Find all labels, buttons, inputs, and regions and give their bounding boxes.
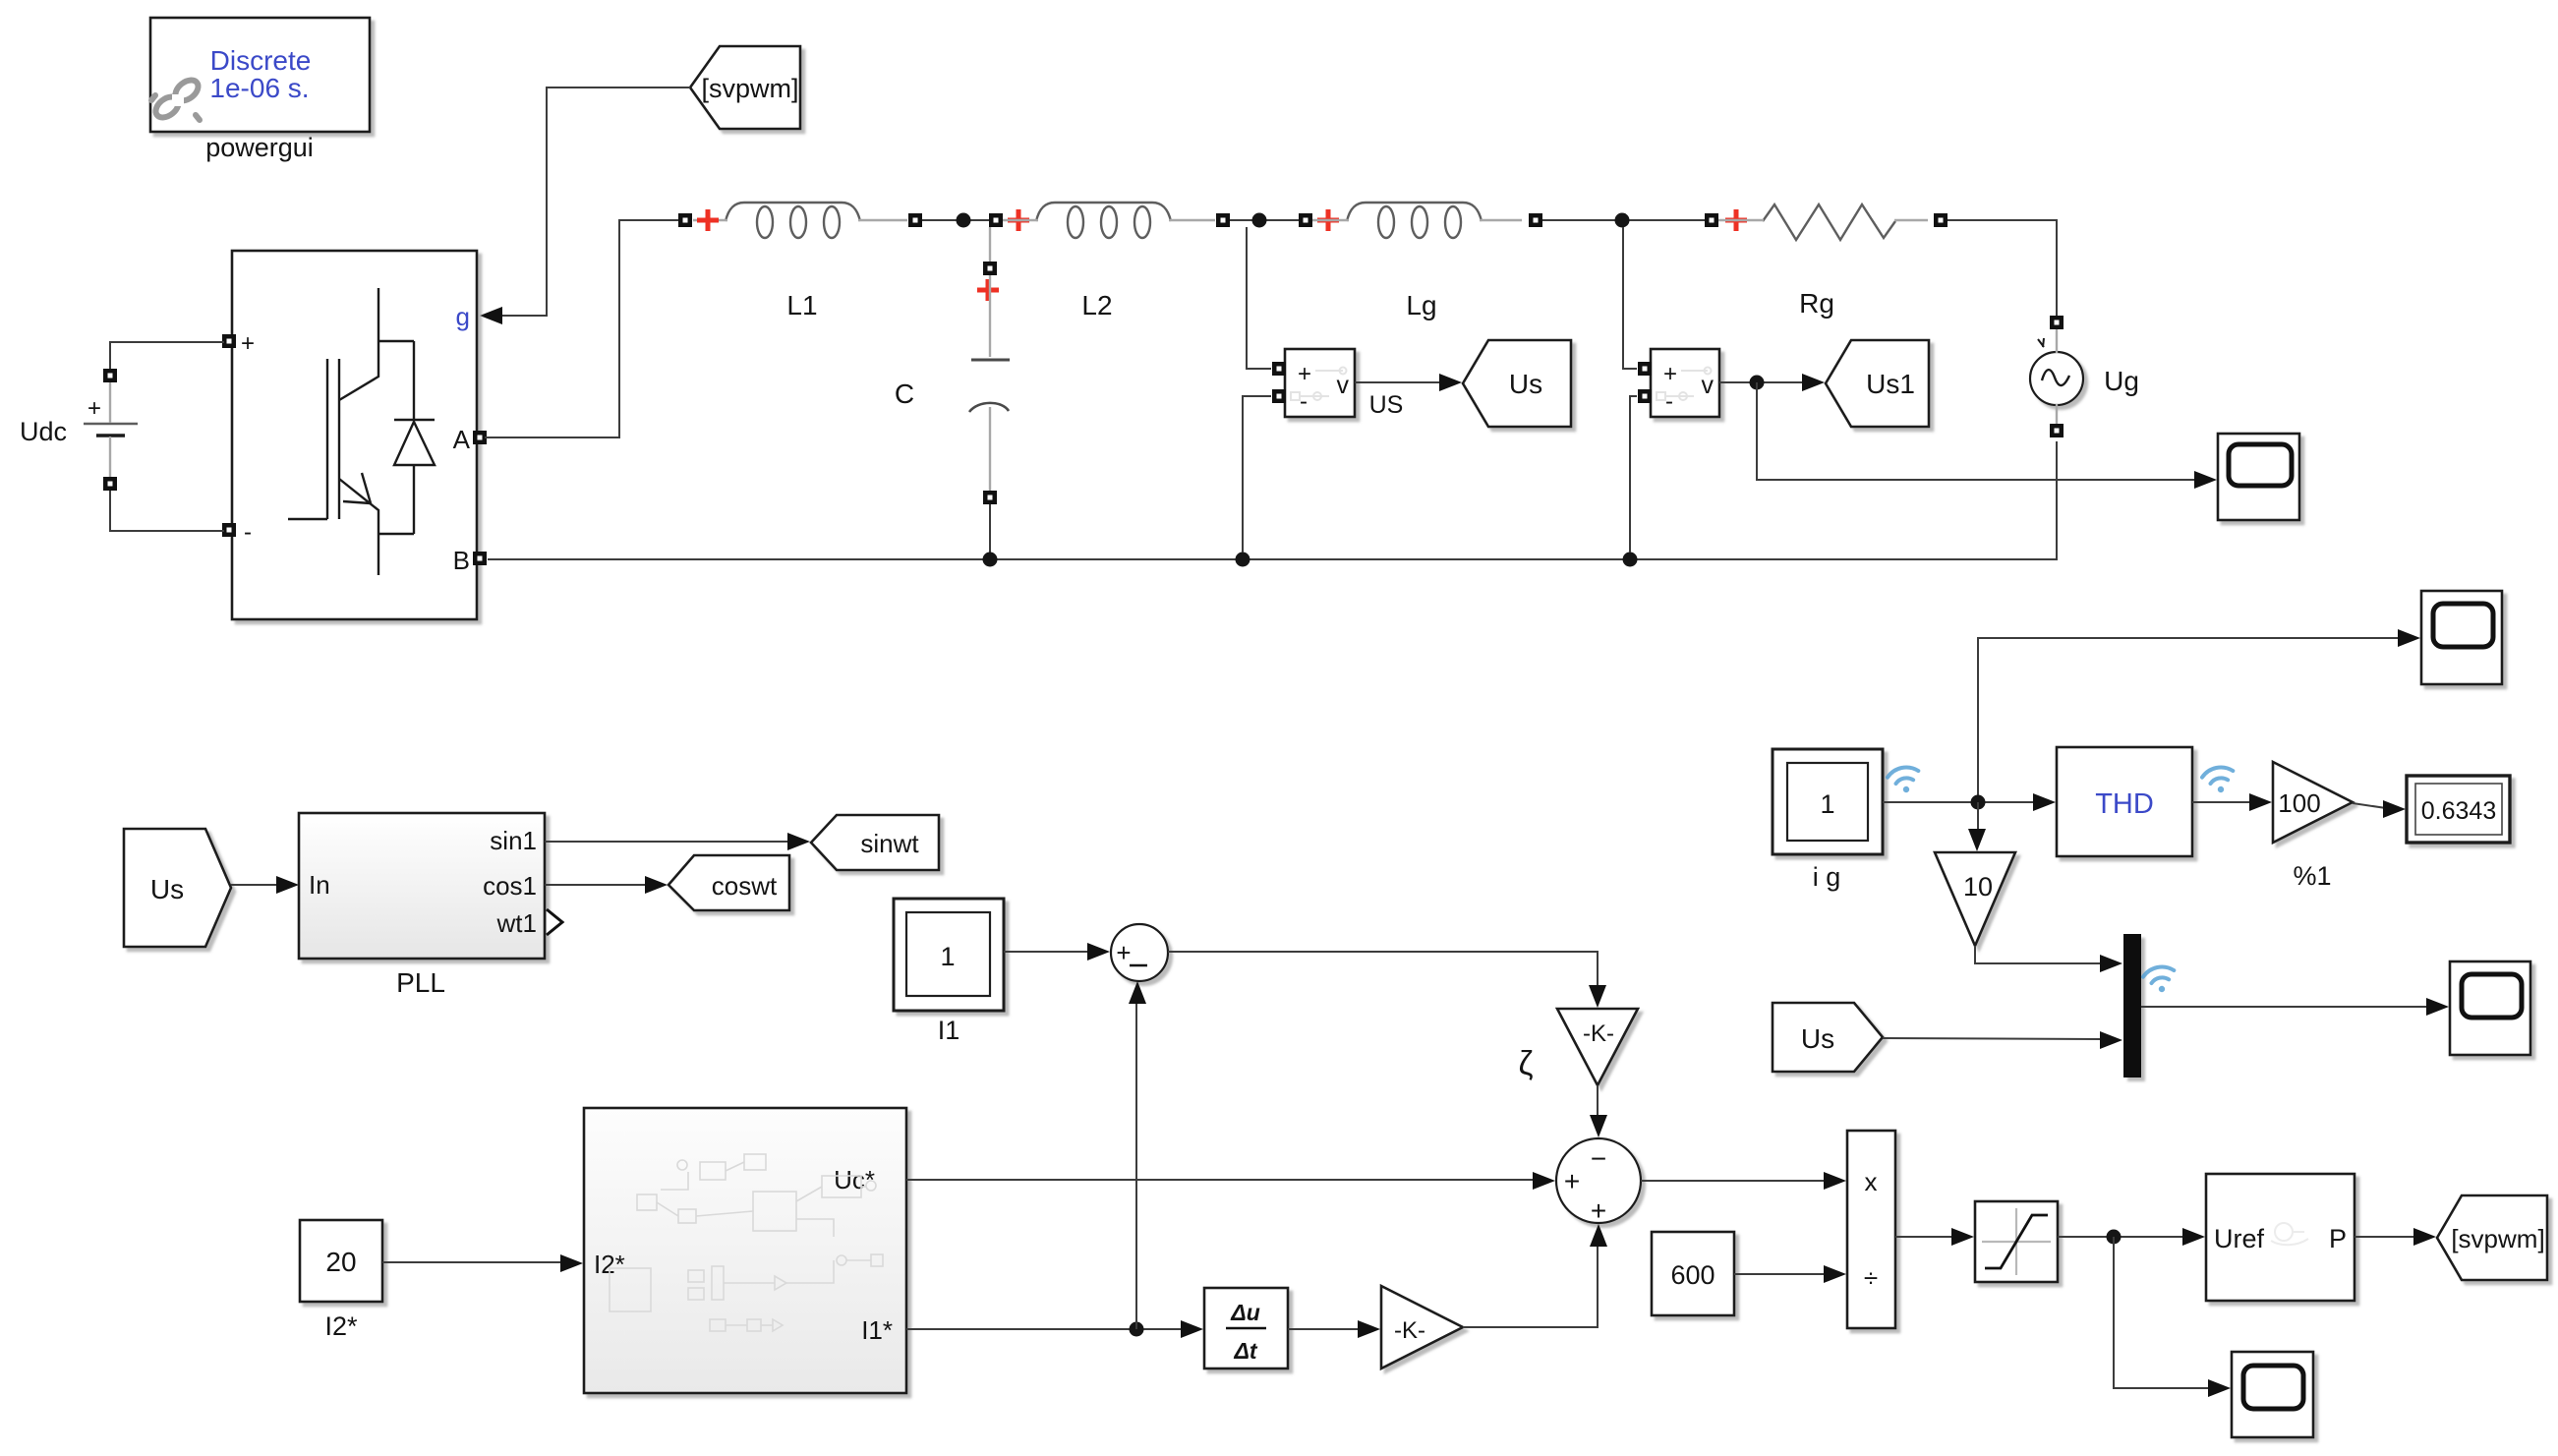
svg-text:g: g [456, 302, 470, 331]
node after L2 [1252, 213, 1267, 228]
wifi badge on i g [1887, 765, 1923, 796]
Rg right port [1934, 213, 1948, 227]
arrow into coswt [645, 876, 668, 894]
svg-text:1: 1 [940, 942, 955, 971]
wire i-g branch up to scope2 [1978, 638, 2399, 802]
svg-text:[svpwm]: [svpwm] [2451, 1224, 2544, 1253]
arrow into Uref [2182, 1228, 2205, 1246]
arrow into mux input 1 [2100, 955, 2122, 972]
wire sum1 out to gain z [1168, 952, 1598, 986]
wire subsystem I1* out [906, 1328, 1182, 1330]
wire gain to display [2353, 803, 2386, 808]
gain -K- (right) [1381, 1286, 1463, 1369]
svg-text:I1*: I1* [861, 1315, 893, 1345]
arrow into Us goto [1439, 374, 1462, 391]
arrow into sum2 left [1533, 1172, 1555, 1190]
svg-text:Udc: Udc [20, 417, 67, 446]
svg-text:Lg: Lg [1406, 290, 1436, 320]
svg-text:v: v [1337, 372, 1350, 399]
capacitor C polarity mark [977, 279, 999, 301]
wire mux to scope3 [2141, 1006, 2427, 1008]
wire THD to gain %1 [2192, 801, 2250, 803]
svg-text:coswt: coswt [712, 871, 778, 901]
From tag [svpwm] (top, flipped) [690, 46, 800, 129]
From tag Us (to PLL) [124, 829, 231, 947]
wire node to Us1 meter + [1623, 227, 1637, 369]
svg-text:L1: L1 [786, 290, 817, 320]
wire US v to Us goto [1355, 381, 1439, 383]
wire subsystem Uc* to sum2 [906, 1179, 1534, 1181]
PLL block [299, 813, 545, 998]
Rg left port [1705, 213, 1718, 227]
svg-text:+: + [1663, 361, 1677, 387]
wire product to saturation [1895, 1236, 1952, 1238]
svg-text:0.6343: 0.6343 [2421, 797, 2496, 825]
gain 10 (down) [1935, 852, 2015, 946]
arrow into gain z [1589, 985, 1606, 1008]
arrow into product x [1824, 1172, 1846, 1190]
svg-text:100: 100 [2278, 788, 2320, 818]
svg-text:PLL: PLL [396, 967, 445, 998]
wire derivative to gain -K- [1288, 1328, 1359, 1330]
bridge A port [473, 431, 487, 444]
arrow into scope4 [2208, 1379, 2231, 1397]
Lg left port [1299, 213, 1312, 227]
US - port [1272, 389, 1286, 403]
arrow into sum1 [1087, 943, 1110, 961]
svg-text:I1: I1 [938, 1016, 960, 1045]
gain z (-K- down) [1519, 1009, 1639, 1085]
arrow into scope1 [2194, 471, 2217, 489]
svg-text:Ug: Ug [2104, 366, 2139, 396]
Goto tag sinwt [811, 815, 939, 870]
svg-text:+: + [87, 395, 101, 422]
svg-text:L2: L2 [1081, 290, 1112, 320]
constant block I1 [894, 899, 1004, 1045]
wire C to B rail [989, 504, 991, 559]
wire from [svpwm] tag to bridge gate g [500, 87, 690, 316]
node meas Us1- on B rail [1623, 553, 1638, 567]
Ug top port [2050, 316, 2064, 329]
wire 20 to subsystem [382, 1261, 561, 1263]
inductor Lg [1312, 203, 1522, 320]
Goto tag [svpwm] [2437, 1195, 2547, 1280]
L2 right port [1216, 213, 1230, 227]
wire US - to B rail [1243, 396, 1271, 553]
voltage measurement US [1285, 349, 1403, 419]
scope4 [2232, 1352, 2313, 1437]
Uref P block [2206, 1174, 2355, 1301]
Lg right port [1529, 213, 1542, 227]
Lg polarity mark [1317, 209, 1339, 231]
svg-text:v: v [1702, 372, 1715, 399]
svg-text:powergui: powergui [205, 133, 314, 162]
svg-text:Rg: Rg [1799, 288, 1834, 319]
bridge + port [222, 334, 236, 348]
L1 polarity mark [697, 209, 719, 231]
svg-text:1e-06 s.: 1e-06 s. [209, 73, 309, 103]
sum1 circle [1111, 924, 1168, 981]
derivative block [1204, 1288, 1288, 1369]
display block i g [1773, 749, 1883, 892]
wire gain 10 to mux [1975, 946, 2101, 963]
scope2 [2421, 591, 2502, 684]
IGBT bridge block U1 [232, 251, 477, 619]
wire Us1 node to scope1 [1757, 382, 2195, 480]
bridge B port [473, 552, 487, 565]
svg-text:÷: ÷ [1864, 1263, 1878, 1293]
arrow into PLL In [276, 876, 299, 894]
inductor L2 [1003, 203, 1215, 320]
svg-text:P: P [2329, 1224, 2347, 1253]
wire bridge A up to L1 [485, 220, 680, 437]
wire i g to THD [1883, 801, 2034, 803]
node on Us1 wire [1750, 376, 1765, 390]
svg-text:-: - [1665, 388, 1673, 415]
arrow into svpwm goto [2413, 1228, 2436, 1246]
controller subsystem block [584, 1108, 906, 1393]
wire cos1 to coswt [545, 884, 646, 886]
svg-text:Us: Us [150, 874, 184, 904]
node after L1 [957, 213, 971, 228]
svg-text:Δt: Δt [1233, 1338, 1257, 1364]
arrow into gain %1 [2249, 793, 2272, 811]
node on i g wire [1971, 795, 1986, 810]
arrow into display [2383, 800, 2406, 818]
scope3 [2450, 961, 2530, 1055]
arrow into mux input 2 [2100, 1031, 2122, 1049]
svg-text:-: - [1300, 388, 1308, 415]
arrow into derivative [1181, 1320, 1203, 1338]
svg-text:Uref: Uref [2214, 1224, 2265, 1253]
arrow into subsystem I2* [560, 1254, 583, 1272]
From tag Us (to mux) [1773, 1003, 1883, 1072]
B rail wire [488, 441, 2057, 559]
wire node up to sum1 bottom [1135, 1002, 1137, 1329]
L1 left port [678, 213, 692, 227]
product block [1847, 1131, 1895, 1328]
svg-text:Discrete: Discrete [210, 45, 312, 76]
battery bottom port [103, 477, 117, 491]
arrow into sum2 top [1590, 1115, 1607, 1137]
arrow into sum2 bottom [1590, 1224, 1607, 1247]
node after Lg [1615, 213, 1630, 228]
saturation block [1975, 1201, 2058, 1282]
DC source Udc battery [20, 382, 138, 477]
powergui block [150, 18, 370, 162]
wire Us1 meter v output [1719, 381, 1803, 383]
svg-text:−: − [1591, 1143, 1606, 1174]
Rg polarity mark [1725, 209, 1747, 231]
svg-text:Us: Us [1801, 1023, 1834, 1054]
arrow into Us1 goto [1802, 374, 1825, 391]
arrow into saturation [1951, 1228, 1974, 1246]
svg-text:10: 10 [1963, 872, 1993, 902]
svg-text:cos1: cos1 [483, 871, 537, 901]
gain %1 (100) [2273, 762, 2353, 891]
Goto tag Us1 [1826, 340, 1929, 427]
arrow into g port [480, 307, 502, 324]
wifi badge on mux output [2142, 964, 2179, 996]
arrow into gain -K- [1358, 1320, 1380, 1338]
wire gain z to sum2 [1597, 1085, 1599, 1116]
capacitor C top port [983, 262, 997, 275]
svg-text:-K-: -K- [1583, 1020, 1614, 1047]
arrow into sum1 bottom [1129, 981, 1146, 1004]
svg-text:-: - [244, 519, 252, 546]
svg-text:In: In [309, 870, 330, 900]
node on I1* wire [1130, 1322, 1144, 1337]
battery top port [103, 369, 117, 382]
Ug bottom port [2050, 424, 2064, 437]
arrow into THD [2033, 793, 2056, 811]
svg-text:x: x [1865, 1167, 1878, 1196]
svg-text:20: 20 [325, 1247, 356, 1277]
arrow into gain 10 [1968, 829, 1986, 851]
sum2 circle [1556, 1138, 1641, 1226]
node meas US- on B rail [1236, 553, 1250, 567]
capacitor C bottom port [983, 491, 997, 504]
svg-text:B: B [453, 546, 470, 575]
mux [2123, 934, 2141, 1077]
wire battery+ to bridge+ [110, 342, 224, 369]
svg-text:ζ: ζ [1519, 1045, 1534, 1082]
wire Us tag to PLL [231, 884, 277, 886]
wire node to US + [1247, 227, 1271, 369]
inductor L1 [693, 203, 907, 320]
wire L2 to Lg with node [1230, 219, 1299, 221]
svg-text:Δu: Δu [1230, 1300, 1260, 1325]
wire battery- to bridge- [110, 491, 224, 531]
wire saturation to Uref [2058, 1236, 2183, 1238]
svg-text:I2*: I2* [324, 1311, 358, 1341]
svg-text:Us: Us [1509, 369, 1542, 399]
svg-text:A: A [453, 425, 471, 454]
constant block 20 [300, 1220, 382, 1341]
wifi badge on THD output [2201, 765, 2238, 796]
arrow into scope2 [2398, 629, 2420, 647]
Us1 meter - port [1638, 389, 1652, 403]
arrow into product divide [1824, 1265, 1846, 1283]
svg-text:+: + [1116, 938, 1131, 967]
svg-text:i g: i g [1813, 862, 1841, 892]
svg-text:wt1: wt1 [496, 908, 537, 938]
svg-text:+: + [1298, 361, 1311, 387]
L2 polarity mark [1008, 209, 1029, 231]
arrow into sinwt [787, 833, 810, 850]
resistor Rg [1718, 204, 1928, 319]
AC grid source Ug [2030, 328, 2139, 425]
svg-text:1: 1 [1820, 789, 1834, 819]
svg-text:+: + [1591, 1195, 1606, 1226]
Goto tag coswt [669, 855, 789, 910]
wire L1 to L2 with node [922, 219, 989, 221]
Goto tag Us [1463, 340, 1571, 427]
capacitor C branch wire [989, 227, 991, 262]
wire node down to scope4 [2114, 1237, 2209, 1388]
wire Uref to svpwm goto [2355, 1236, 2414, 1238]
THD block [2057, 747, 2192, 856]
wire gain -K- to sum2 bottom [1463, 1246, 1598, 1327]
numeric display 0.6343 [2407, 776, 2510, 843]
capacitor C [895, 275, 1010, 491]
wire sum2 to product [1641, 1180, 1825, 1182]
Us1 meter + port [1638, 362, 1652, 376]
wire sin1 to sinwt [545, 841, 788, 843]
wire 600 to product [1734, 1273, 1825, 1275]
node after saturation [2107, 1230, 2122, 1245]
svg-text:sinwt: sinwt [860, 829, 919, 858]
wire Us tag to mux [1883, 1038, 2101, 1039]
US + port [1272, 362, 1286, 376]
L2 left port [989, 213, 1003, 227]
arrow into scope3 [2426, 998, 2449, 1016]
svg-text:THD: THD [2095, 788, 2154, 820]
svg-text:%1: %1 [2293, 861, 2331, 891]
constant block 600 [1652, 1232, 1734, 1315]
voltage measurement Us1 meter [1651, 349, 1719, 417]
L1 right port [908, 213, 922, 227]
svg-text:sin1: sin1 [490, 826, 537, 855]
node C on B rail [983, 553, 998, 567]
svg-text:+: + [241, 330, 255, 357]
wire Us1 meter - to B rail [1630, 396, 1637, 553]
bridge - port [222, 523, 236, 537]
svg-text:-K-: -K- [1394, 1317, 1425, 1344]
svg-text:Us1: Us1 [1866, 369, 1915, 399]
svg-text:[svpwm]: [svpwm] [701, 74, 798, 103]
wire Rg to Ug [1948, 220, 2057, 316]
svg-text:+: + [1564, 1166, 1580, 1196]
wire I1 to sum1 [1004, 951, 1088, 953]
wt1 unconnected output arrow [547, 909, 562, 935]
scope1 [2218, 434, 2299, 520]
svg-text:US: US [1369, 391, 1404, 419]
wire Lg to Rg with node [1542, 219, 1705, 221]
svg-text:600: 600 [1670, 1260, 1715, 1290]
svg-text:C: C [895, 379, 914, 409]
wire i-g node down to gain 10 [1977, 802, 1979, 832]
